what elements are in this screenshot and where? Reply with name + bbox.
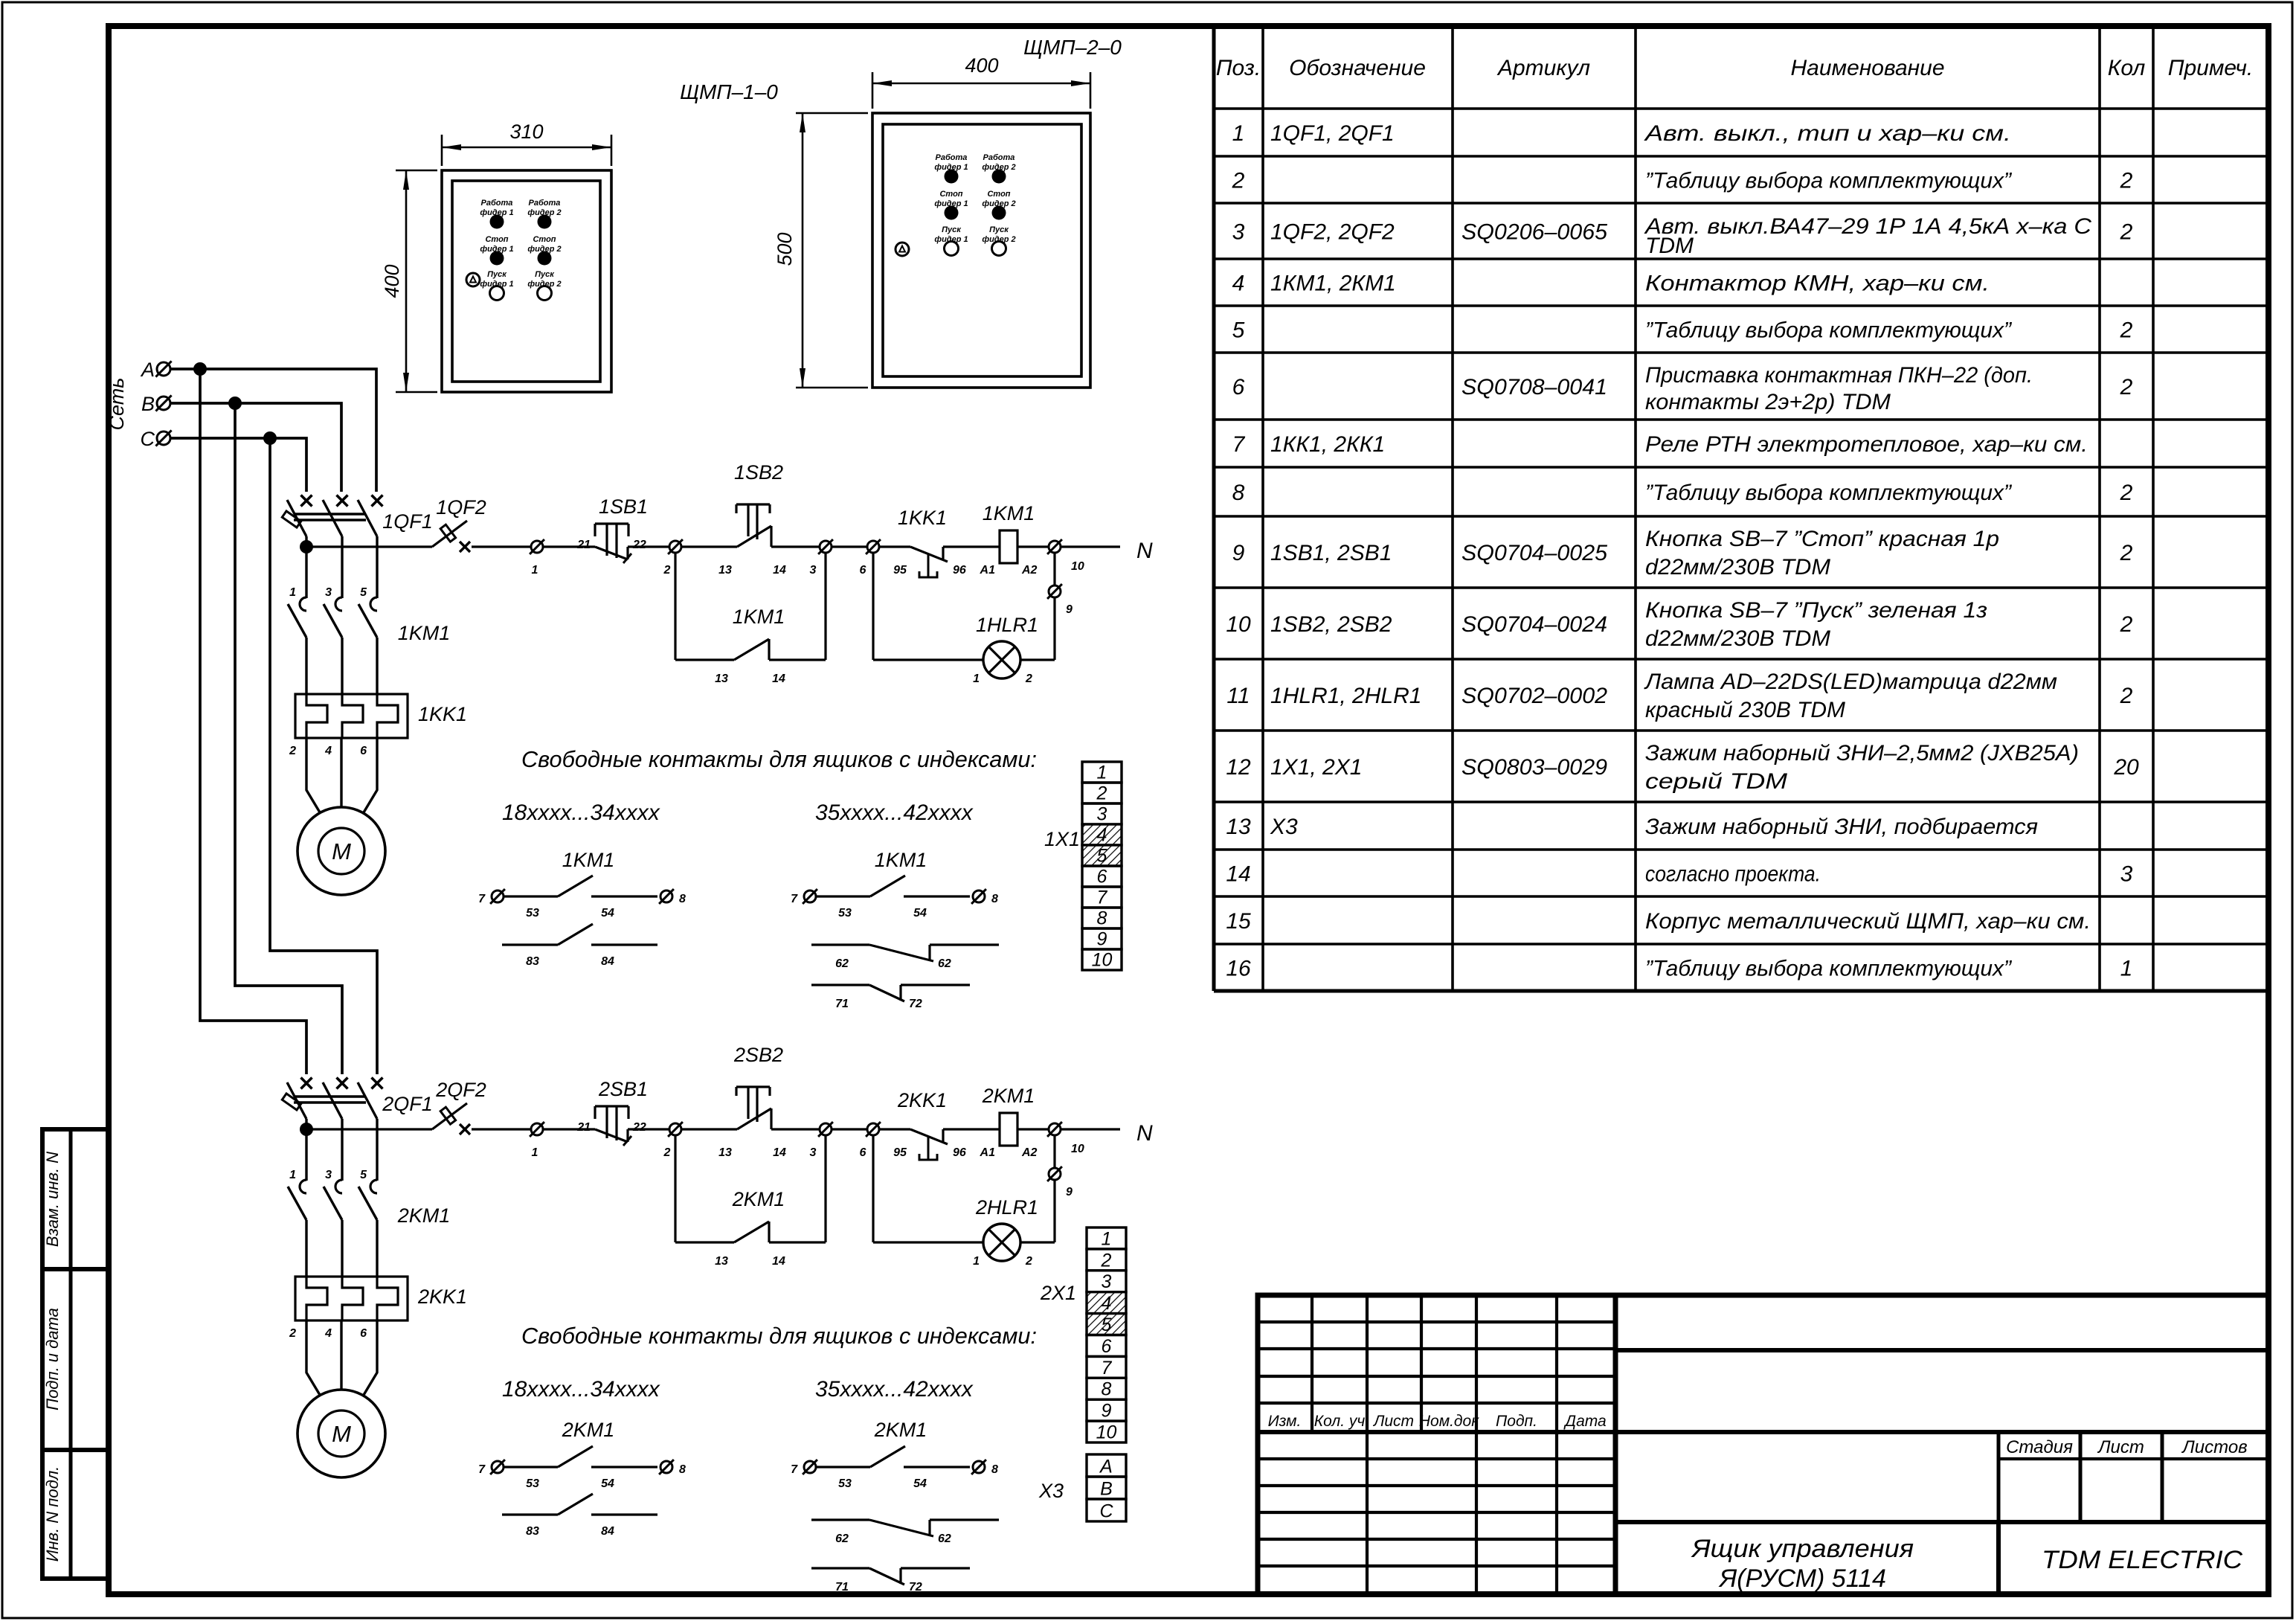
wire [1017, 1128, 1049, 1130]
svg-text:Реле РТН электротепловое, х: Реле РТН электротепловое, хар–ки см. [1645, 432, 2088, 457]
svg-text:7: 7 [791, 1463, 798, 1476]
svg-text:Подп.: Подп. [1496, 1413, 1537, 1430]
svg-text:2: 2 [2120, 612, 2133, 637]
wire [544, 1128, 595, 1130]
svg-text:2KK1: 2KK1 [417, 1286, 467, 1308]
svg-text:SQ0803–0029: SQ0803–0029 [1461, 755, 1607, 780]
svg-text:8: 8 [991, 1463, 998, 1476]
svg-text:Кнопка SB–7 ”Пуск” зеленая: Кнопка SB–7 ”Пуск” зеленая 1з [1645, 598, 1987, 623]
svg-text:N: N [1136, 539, 1153, 563]
free contact 1KM1 62-62 [811, 943, 869, 946]
wire [879, 545, 910, 548]
svg-text:13: 13 [1226, 815, 1251, 839]
wire lamp to terminal 6 branch [873, 1241, 983, 1243]
svg-text:6: 6 [1232, 375, 1245, 399]
svg-text:согласно проекта.: согласно проекта. [1645, 862, 1821, 887]
cabinet ЩМП-2-0 outer [872, 113, 1090, 388]
wire [628, 1128, 669, 1130]
svg-text:11: 11 [1226, 684, 1250, 708]
wire [472, 545, 530, 548]
svg-text:Сеть: Сеть [106, 378, 128, 431]
wire [472, 1128, 530, 1130]
thermal relay 1KK1 heaters [295, 694, 408, 738]
wire to N [1061, 1128, 1120, 1130]
terminal block 1X1 [1082, 762, 1122, 783]
wire [943, 545, 1000, 548]
svg-text:контакты 2э+2р) TDM: контакты 2э+2р) TDM [1645, 390, 1891, 414]
svg-text:Я(РУСМ) 5114: Я(РУСМ) 5114 [1718, 1564, 1886, 1593]
svg-text:62: 62 [835, 1532, 849, 1545]
svg-text:1QF1, 2QF1: 1QF1, 2QF1 [1270, 121, 1395, 146]
wire down to lamp [1053, 553, 1055, 585]
svg-text:18хххх...34хххх: 18хххх...34хххх [502, 800, 660, 825]
title block outer [1258, 1295, 2268, 1594]
svg-text:3: 3 [1102, 1271, 1112, 1292]
node: control tap on 1QF1 pole 1 [300, 540, 313, 553]
free contact 2KM1 62-62 [811, 1518, 869, 1521]
svg-text:Контактор КМН, хар–ки см.: Контактор КМН, хар–ки см. [1645, 272, 1990, 296]
cabinet ЩМП-1-0 outer [442, 170, 611, 392]
svg-text:5: 5 [1102, 1315, 1112, 1335]
svg-text:9: 9 [1066, 1186, 1073, 1198]
thick line under stage boxes [1615, 1520, 2268, 1524]
svg-text:2HLR1: 2HLR1 [975, 1196, 1038, 1219]
svg-text:2: 2 [289, 745, 296, 757]
svg-text:9: 9 [1066, 603, 1073, 616]
svg-text:Стоп: Стоп [485, 235, 508, 244]
svg-text:8: 8 [1232, 481, 1245, 505]
svg-text:13: 13 [718, 564, 732, 577]
svg-text:серый TDM: серый TDM [1645, 769, 1787, 794]
svg-text:2: 2 [2120, 169, 2133, 193]
svg-text:400: 400 [381, 264, 403, 298]
wires to motor [306, 738, 320, 812]
svg-text:14: 14 [773, 1146, 786, 1159]
svg-text:1SB1: 1SB1 [599, 495, 648, 518]
control wire from 1QF1 [306, 545, 432, 548]
svg-text:1KK1: 1KK1 [898, 507, 947, 529]
junction node phase A [193, 362, 207, 376]
terminal 2 [669, 541, 681, 553]
svg-text:Пуск: Пуск [487, 270, 507, 279]
svg-text:84: 84 [601, 955, 614, 968]
svg-text:1SB2: 1SB2 [734, 461, 783, 484]
svg-text:1: 1 [289, 586, 296, 599]
svg-text:5: 5 [1097, 846, 1107, 867]
svg-text:A2: A2 [1021, 564, 1038, 577]
svg-text:21: 21 [576, 1121, 591, 1134]
svg-text:10: 10 [1071, 1143, 1084, 1155]
svg-text:71: 71 [835, 1581, 849, 1593]
svg-text:B: B [141, 393, 155, 415]
svg-text:Ящик управления: Ящик управления [1691, 1535, 1914, 1563]
svg-text:2KM1: 2KM1 [982, 1085, 1035, 1107]
svg-text:Изм.: Изм. [1268, 1413, 1302, 1430]
svg-text:SQ0708–0041: SQ0708–0041 [1461, 375, 1607, 399]
svg-text:500: 500 [774, 232, 796, 266]
svg-text:Кнопка SB–7 ”Стоп” красная: Кнопка SB–7 ”Стоп” красная 1р [1645, 527, 1999, 551]
svg-text:2KM1: 2KM1 [874, 1419, 927, 1441]
svg-text:А: А [1099, 1457, 1113, 1477]
svg-text:2: 2 [1025, 673, 1032, 685]
svg-text:M: M [332, 1421, 351, 1447]
svg-text:83: 83 [526, 1525, 539, 1538]
svg-text:Примеч.: Примеч. [2168, 56, 2254, 80]
svg-text:54: 54 [913, 1477, 927, 1490]
junction node phase B [228, 397, 242, 410]
thick line above Изм row bottom [1258, 1430, 2268, 1434]
breaker 2QF2 [432, 1103, 467, 1129]
svg-text:20: 20 [2113, 755, 2139, 780]
svg-text:9: 9 [1102, 1401, 1112, 1422]
svg-text:53: 53 [526, 1477, 539, 1490]
free contact 1KM1 71-72 [811, 983, 869, 986]
svg-text:1KM1: 1KM1 [398, 622, 451, 644]
right area divider [1615, 1348, 2268, 1352]
svg-text:A: A [140, 359, 155, 381]
free contact 2KM1 83-84 [502, 1513, 558, 1515]
svg-text:5: 5 [360, 586, 367, 599]
svg-text:фидер 2: фидер 2 [527, 280, 561, 289]
svg-text:16: 16 [1226, 957, 1251, 981]
svg-text:Лист: Лист [2097, 1437, 2144, 1457]
free contact 1KM1 83-84 [502, 943, 558, 946]
svg-text:53: 53 [526, 907, 539, 919]
svg-text:8: 8 [679, 1463, 686, 1476]
svg-text:В: В [1100, 1479, 1113, 1500]
specification table grid [1214, 26, 2268, 991]
svg-text:C: C [141, 428, 155, 450]
cabinet ЩМП-2-0 door [883, 124, 1081, 376]
svg-text:1КК1, 2КК1: 1КК1, 2КК1 [1270, 432, 1385, 457]
contactor 1KM1 main contacts [300, 597, 306, 611]
terminal 10 [1049, 1123, 1061, 1135]
svg-text:15: 15 [1226, 909, 1251, 934]
svg-text:3: 3 [1232, 220, 1245, 245]
svg-text:Зажим наборный ЗНИ, подбира: Зажим наборный ЗНИ, подбирается [1645, 815, 2038, 839]
wire [681, 1128, 737, 1130]
svg-text:1: 1 [532, 1146, 538, 1159]
svg-text:72: 72 [909, 1581, 922, 1593]
svg-text:Работа: Работа [481, 199, 513, 208]
terminal block X3 [1087, 1454, 1126, 1477]
svg-text:95: 95 [893, 564, 907, 577]
svg-text:1: 1 [2120, 957, 2133, 981]
svg-text:1KM1: 1KM1 [562, 849, 615, 871]
svg-text:TDM: TDM [1645, 234, 1694, 258]
svg-text:13: 13 [715, 673, 728, 685]
wire [771, 1128, 820, 1130]
svg-text:2: 2 [289, 1327, 296, 1340]
svg-text:6: 6 [1102, 1336, 1112, 1357]
svg-text:SQ0704–0025: SQ0704–0025 [1461, 541, 1607, 565]
svg-text:12: 12 [1226, 755, 1251, 780]
wire feeder B to 2QF1 [235, 403, 342, 1074]
terminal 3 [820, 1123, 832, 1135]
circuit breaker 1QF1 [301, 495, 312, 507]
svg-text:1KK1: 1KK1 [418, 703, 467, 725]
svg-text:SQ0702–0002: SQ0702–0002 [1461, 684, 1607, 708]
left margin stamp block [42, 1129, 109, 1579]
svg-text:2: 2 [2120, 684, 2133, 708]
svg-text:13: 13 [718, 1146, 732, 1159]
svg-text:2: 2 [1101, 1250, 1112, 1271]
svg-text:2KK1: 2KK1 [897, 1089, 947, 1111]
svg-text:1SB1, 2SB1: 1SB1, 2SB1 [1270, 541, 1392, 565]
svg-text:8: 8 [679, 893, 686, 905]
svg-text:SQ0704–0024: SQ0704–0024 [1461, 612, 1607, 637]
wire [1017, 545, 1049, 548]
svg-text:2KM1: 2KM1 [562, 1419, 615, 1441]
svg-text:96: 96 [953, 564, 966, 577]
svg-text:14: 14 [773, 564, 786, 577]
wire pole 1 down [305, 1129, 307, 1181]
cabinet ЩМП-1-0 door [452, 181, 600, 382]
svg-text:53: 53 [838, 1477, 852, 1490]
svg-text:A1: A1 [980, 1146, 996, 1159]
wire self-hold branch [674, 553, 676, 660]
svg-text:Работа: Работа [936, 153, 968, 162]
svg-text:18хххх...34хххх: 18хххх...34хххх [502, 1377, 660, 1402]
svg-text:10: 10 [1092, 950, 1113, 971]
svg-text:2QF1: 2QF1 [382, 1093, 433, 1115]
svg-text:6: 6 [860, 1146, 866, 1159]
control wire from 2QF1 [306, 1128, 432, 1130]
svg-text:6: 6 [360, 745, 367, 757]
svg-text:2Х1: 2Х1 [1040, 1282, 1076, 1304]
svg-text:Пуск: Пуск [989, 225, 1009, 234]
wire feeder C to 2QF1 [270, 438, 377, 1074]
svg-text:22: 22 [632, 539, 646, 551]
svg-text:N: N [1136, 1121, 1153, 1146]
terminal 3 [820, 541, 832, 553]
svg-text:83: 83 [526, 955, 539, 968]
terminal 9 [1049, 1168, 1061, 1180]
svg-text:1: 1 [1232, 121, 1245, 146]
wire [879, 1128, 910, 1130]
svg-text:1Х1, 2Х1: 1Х1, 2Х1 [1270, 755, 1362, 780]
svg-text:Наименование: Наименование [1790, 56, 1944, 80]
svg-text:400: 400 [965, 54, 998, 77]
svg-text:”Таблицу выбора комплектующи: ”Таблицу выбора комплектующих” [1645, 169, 2013, 193]
svg-text:фидер 1: фидер 1 [480, 280, 513, 289]
svg-text:3: 3 [810, 1146, 817, 1159]
svg-text:5: 5 [360, 1169, 367, 1181]
svg-text:4: 4 [1232, 272, 1245, 296]
terminal 2 [669, 1123, 681, 1135]
svg-text:”Таблицу выбора комплектующи: ”Таблицу выбора комплектующих” [1645, 481, 2013, 505]
svg-text:62: 62 [938, 1532, 951, 1545]
svg-text:4: 4 [1097, 825, 1107, 846]
wire [628, 545, 669, 548]
svg-text:Листов: Листов [2181, 1437, 2247, 1457]
svg-text:4: 4 [1102, 1293, 1112, 1314]
svg-text:d22мм/230В TDM: d22мм/230В TDM [1645, 555, 1830, 580]
terminal 1 [531, 541, 543, 553]
svg-text:Х3: Х3 [1038, 1480, 1064, 1502]
svg-text:1QF1: 1QF1 [382, 510, 433, 533]
svg-text:53: 53 [838, 907, 852, 919]
svg-text:M: M [332, 838, 351, 864]
circuit breaker 2QF1 [301, 1078, 312, 1089]
svg-text:1KM1: 1KM1 [875, 849, 927, 871]
svg-text:72: 72 [909, 998, 922, 1010]
svg-text:10: 10 [1096, 1422, 1117, 1443]
svg-text:Работа: Работа [529, 199, 561, 208]
svg-text:8: 8 [991, 893, 998, 905]
cabinet ЩМП-1-0 lock [466, 273, 480, 286]
svg-text:96: 96 [953, 1146, 966, 1159]
svg-text:Дата: Дата [1563, 1413, 1606, 1430]
svg-text:22: 22 [632, 1121, 646, 1134]
wire phase A to 1QF1 [171, 369, 376, 492]
svg-text:14: 14 [772, 673, 785, 685]
svg-text:2SB1: 2SB1 [598, 1078, 648, 1100]
wire [832, 545, 867, 548]
svg-text:Лампа AD–22DS(LED)матрица d2: Лампа AD–22DS(LED)матрица d22мм [1644, 670, 2057, 694]
svg-text:8: 8 [1102, 1379, 1112, 1400]
wire to N [1061, 545, 1120, 548]
svg-text:Стоп: Стоп [939, 190, 962, 199]
free contact 2KM1 71-72 [811, 1567, 869, 1569]
stage header row [1997, 1432, 2001, 1522]
wire [771, 545, 820, 548]
motor M1 [298, 807, 385, 895]
svg-text:54: 54 [601, 907, 614, 919]
svg-text:1: 1 [532, 564, 538, 577]
terminal 9 [1049, 585, 1061, 597]
svg-text:Подп. и дата: Подп. и дата [43, 1308, 62, 1410]
svg-text:1SB2, 2SB2: 1SB2, 2SB2 [1270, 612, 1392, 637]
svg-text:2: 2 [2120, 481, 2133, 505]
svg-text:4: 4 [324, 1327, 332, 1340]
terminal 6 [867, 541, 879, 553]
svg-text:Артикул: Артикул [1496, 56, 1590, 80]
svg-text:Авт. выкл., тип и хар–ки с: Авт. выкл., тип и хар–ки см. [1644, 121, 2011, 146]
svg-text:13: 13 [715, 1255, 728, 1268]
svg-text:9: 9 [1232, 541, 1245, 565]
title block vertical divider [1613, 1295, 1618, 1594]
svg-text:С: С [1099, 1501, 1113, 1522]
wire [832, 1128, 867, 1130]
svg-text:1: 1 [973, 1255, 980, 1268]
svg-text:2QF2: 2QF2 [435, 1079, 486, 1101]
svg-text:Кол. уч: Кол. уч [1314, 1413, 1366, 1430]
svg-text:2: 2 [2120, 220, 2133, 245]
wire down to lamp [1053, 1135, 1055, 1168]
motor M2 [298, 1390, 385, 1477]
svg-text:красный 230В TDM: красный 230В TDM [1645, 698, 1845, 722]
svg-text:Стадия: Стадия [2006, 1437, 2073, 1457]
terminal 10 [1049, 541, 1061, 553]
terminal 1 [531, 1123, 543, 1135]
svg-text:2: 2 [2120, 541, 2133, 565]
svg-text:Авт. выкл.ВА47–29 1Р 1А 4: Авт. выкл.ВА47–29 1Р 1А 4,5кА х–ка С [1644, 214, 2092, 239]
svg-text:TDM ELECTRIC: TDM ELECTRIC [2042, 1546, 2242, 1574]
wire [544, 545, 595, 548]
svg-text:Лист: Лист [1372, 1413, 1414, 1430]
svg-text:5: 5 [1232, 318, 1245, 343]
svg-text:6: 6 [360, 1327, 367, 1340]
svg-text:Обозначение: Обозначение [1289, 56, 1426, 80]
svg-text:Пуск: Пуск [942, 225, 962, 234]
svg-text:1QF2, 2QF2: 1QF2, 2QF2 [1270, 220, 1395, 245]
svg-text:2: 2 [663, 1146, 671, 1159]
node: control tap on 2QF1 pole 1 [300, 1123, 313, 1136]
svg-text:95: 95 [893, 1146, 907, 1159]
svg-text:Приставка контактная ПКН–22: Приставка контактная ПКН–22 (доп. [1645, 363, 2033, 388]
svg-text:Работа: Работа [983, 153, 1015, 162]
svg-text:фидер 1: фидер 1 [934, 235, 968, 244]
svg-text:Свободные контакты для ящик: Свободные контакты для ящиков с индексам… [521, 746, 1037, 772]
svg-text:Зажим наборный ЗНИ–2,5мм2 (: Зажим наборный ЗНИ–2,5мм2 (JXB25A) [1645, 741, 2079, 766]
svg-text:7: 7 [1102, 1358, 1113, 1379]
svg-text:1QF2: 1QF2 [436, 496, 486, 519]
svg-text:3: 3 [810, 564, 817, 577]
wire phase B to 1QF1 [171, 403, 341, 492]
svg-text:310: 310 [509, 121, 543, 143]
revision table upper horizontals [1258, 1320, 1615, 1323]
svg-text:1KM1: 1KM1 [983, 502, 1035, 524]
svg-text:7: 7 [478, 893, 486, 905]
svg-text:14: 14 [772, 1255, 785, 1268]
svg-text:2: 2 [2120, 318, 2133, 343]
svg-text:”Таблицу выбора комплектующи: ”Таблицу выбора комплектующих” [1645, 318, 2013, 343]
svg-text:3: 3 [325, 1169, 332, 1181]
svg-text:3: 3 [1097, 804, 1107, 825]
revision table lower horizontals [1258, 1457, 1615, 1460]
svg-text:Х3: Х3 [1270, 815, 1298, 839]
svg-text:Стоп: Стоп [533, 235, 556, 244]
svg-text:A2: A2 [1021, 1146, 1038, 1159]
svg-text:7: 7 [478, 1463, 486, 1476]
svg-text:7: 7 [791, 893, 798, 905]
svg-text:Пуск: Пуск [535, 270, 555, 279]
wire lamp to terminal 6 branch [873, 658, 983, 661]
svg-text:35хххх...42хххх: 35хххх...42хххх [815, 800, 974, 825]
svg-text:6: 6 [860, 564, 866, 577]
svg-text:2: 2 [1025, 1255, 1032, 1268]
svg-text:Свободные контакты для ящик: Свободные контакты для ящиков с индексам… [521, 1323, 1037, 1349]
svg-text:1КМ1, 2КМ1: 1КМ1, 2КМ1 [1270, 272, 1396, 296]
svg-text:6: 6 [1097, 867, 1107, 888]
svg-text:фидер 2: фидер 2 [982, 235, 1015, 244]
contactor 2KM1 main contacts [300, 1180, 306, 1193]
svg-text:2KM1: 2KM1 [732, 1188, 785, 1210]
svg-text:2: 2 [663, 564, 671, 577]
svg-text:ЩМП–1–0: ЩМП–1–0 [680, 80, 778, 103]
wire phase C to 1QF1 [171, 438, 306, 492]
junction node phase C [263, 431, 277, 445]
svg-text:”Таблицу выбора комплектующи: ”Таблицу выбора комплектующих” [1645, 957, 2013, 981]
wire [943, 1128, 1000, 1130]
cabinet ЩМП-2-0 lock [895, 243, 909, 256]
svg-text:7: 7 [1097, 888, 1108, 908]
svg-text:62: 62 [835, 957, 849, 970]
svg-text:Ном.док: Ном.док [1419, 1413, 1479, 1430]
svg-text:3: 3 [325, 586, 332, 599]
svg-text:9: 9 [1097, 929, 1107, 950]
svg-text:1KM1: 1KM1 [733, 606, 785, 628]
svg-text:1: 1 [973, 673, 980, 685]
svg-text:54: 54 [913, 907, 927, 919]
svg-text:SQ0206–0065: SQ0206–0065 [1461, 220, 1607, 245]
svg-text:ЩМП–2–0: ЩМП–2–0 [1023, 36, 1122, 59]
svg-text:3: 3 [2120, 862, 2133, 887]
svg-text:1: 1 [1097, 763, 1107, 783]
svg-text:Стоп: Стоп [987, 190, 1010, 199]
svg-text:1HLR1: 1HLR1 [976, 614, 1038, 636]
